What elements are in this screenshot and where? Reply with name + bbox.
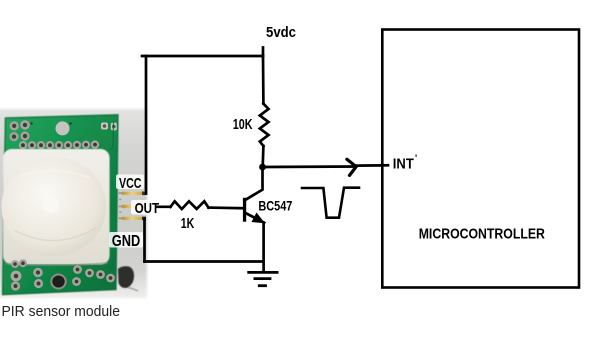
svg-text:INT: INT bbox=[393, 156, 414, 173]
svg-text:': ' bbox=[415, 153, 417, 163]
svg-text:1K: 1K bbox=[181, 215, 195, 232]
svg-text:PIR sensor module: PIR sensor module bbox=[2, 304, 121, 320]
svg-text:MICROCONTROLLER: MICROCONTROLLER bbox=[419, 226, 545, 243]
svg-text:VCC: VCC bbox=[119, 175, 142, 192]
svg-text:OUT: OUT bbox=[135, 200, 160, 217]
svg-text:10K: 10K bbox=[233, 116, 253, 133]
svg-text:BC547: BC547 bbox=[258, 198, 292, 214]
svg-text:5vdc: 5vdc bbox=[266, 24, 296, 41]
svg-text:GND: GND bbox=[112, 233, 141, 250]
